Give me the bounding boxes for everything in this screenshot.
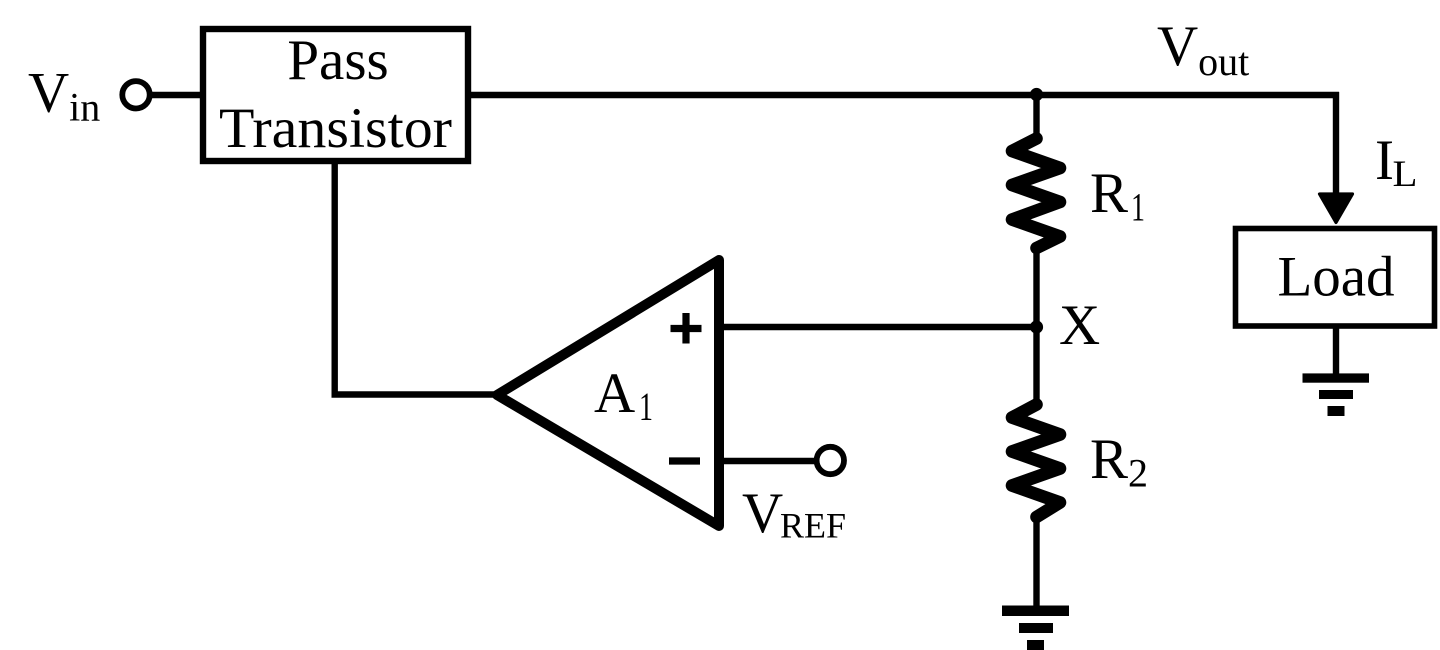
svg-text:1: 1 (639, 384, 653, 429)
svg-text:X: X (1059, 294, 1100, 357)
svg-text:Transistor: Transistor (219, 97, 452, 160)
svg-text:REF: REF (780, 506, 846, 546)
svg-text:2: 2 (1128, 451, 1148, 496)
svg-text:I: I (1375, 129, 1394, 192)
svg-text:R: R (1090, 428, 1128, 491)
svg-text:L: L (1393, 154, 1418, 195)
svg-text:R: R (1090, 162, 1128, 225)
svg-text:1: 1 (1131, 185, 1145, 230)
svg-text:Load: Load (1277, 246, 1394, 309)
svg-text:A: A (594, 362, 635, 425)
svg-text:V: V (742, 482, 783, 545)
svg-text:Pass: Pass (287, 29, 388, 92)
